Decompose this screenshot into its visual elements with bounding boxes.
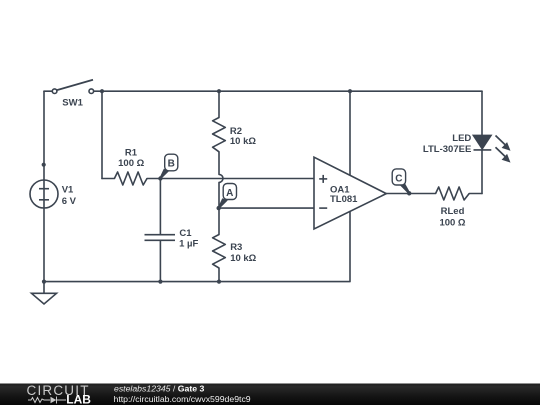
junction bottom rail at R3 [217,280,221,284]
wire right rail to LED [481,91,483,135]
junction top rail at SW1 [100,89,104,93]
op-amp U1 OA1 [314,157,386,229]
svg-text:C1: C1 [179,228,192,239]
wire op-amp V+ pin [349,91,351,175]
wire switch right lead [94,90,102,92]
wire R2 top lead [218,91,220,117]
node A [217,184,237,211]
svg-text:B: B [168,159,175,170]
voltage source V1 [30,180,58,208]
wire left rail top [43,91,45,180]
svg-text:LED: LED [452,133,471,144]
svg-text:10 kΩ: 10 kΩ [230,253,256,264]
wire ground stub [43,282,45,294]
svg-text:10 kΩ: 10 kΩ [230,136,256,147]
wire R2 bottom lead with hop over B wire [219,152,223,208]
node B [158,154,178,181]
CircuitLab logo squiggle wire [28,397,66,404]
resistor R1 [114,172,147,185]
svg-text:C: C [395,173,402,184]
junction top rail at op-amp V+ [348,89,352,93]
wire node B row to op-amp + input [147,178,314,180]
junction left rail above V1 [42,163,46,167]
LED arrow 2 [496,147,511,162]
svg-text:RLed: RLed [441,206,465,217]
wire R1 branch vertical [101,91,103,178]
svg-text:R1: R1 [125,148,138,159]
wire RLed to op-amp output, node C [386,193,435,195]
svg-text:100 Ω: 100 Ω [118,158,144,169]
junction top rail at R2 [217,89,221,93]
svg-text:1 µF: 1 µF [179,239,198,250]
ground [32,293,57,304]
wire corner to RLed [469,193,482,195]
wire node B down to C1 [159,179,161,235]
svg-text:estelabs12345 / Gate 3: estelabs12345 / Gate 3 [114,384,204,394]
node C [392,169,411,196]
LED arrow 1 [496,136,511,151]
wire R1 left lead [102,178,114,180]
svg-text:V1: V1 [62,184,74,195]
wire switch left lead [44,90,52,92]
wire LED cathode to corner [481,150,483,193]
LED D1 [473,135,491,150]
svg-text:LTL-307EE: LTL-307EE [423,144,471,155]
svg-text:R3: R3 [230,242,242,253]
resistor R3 [213,235,226,269]
junction bottom rail at C1 [158,280,162,284]
wire top rail [102,90,482,92]
switch SW1 [52,80,93,94]
CircuitLab logo diode [51,397,57,403]
svg-text:LAB: LAB [66,392,91,405]
wire C1 to bottom rail [159,240,161,281]
capacitor C1 [145,235,176,241]
resistor RLed [436,187,470,200]
svg-text:SW1: SW1 [62,97,83,108]
wire left rail bottom [43,208,45,282]
svg-text:TL081: TL081 [330,194,358,205]
svg-text:http://circuitlab.com/cwvx599d: http://circuitlab.com/cwvx599de9tc9 [114,394,251,404]
junction bottom rail at ground [42,280,46,284]
footer bar [0,384,540,405]
wire node A row to op-amp - input [219,207,314,209]
svg-text:100 Ω: 100 Ω [439,217,465,228]
wire R3 bottom lead [218,268,220,282]
resistor R2 [213,118,226,152]
wire bottom rail [44,212,350,282]
wire node A to R3 [218,208,220,234]
svg-text:A: A [226,188,233,199]
svg-text:6 V: 6 V [62,196,77,207]
